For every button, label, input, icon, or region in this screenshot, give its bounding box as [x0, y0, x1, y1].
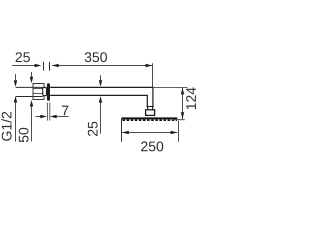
mid 25 callout lower line [100, 102, 102, 133]
50 callout upper line [31, 72, 33, 77]
G1/2 callout upper line [15, 74, 17, 80]
7 dim line left segment [35, 116, 41, 118]
7 extension line left [46, 103, 48, 121]
mid 25 arrowhead up [99, 96, 102, 103]
wall fitting inner line lower [33, 93, 43, 95]
shower head nozzle dots [123, 119, 178, 121]
connector nut top line [147, 106, 154, 108]
arrowhead 25 top right-pointing [35, 64, 42, 67]
dimension label 7 [62, 106, 68, 116]
G1/2 callout lower line [15, 102, 17, 141]
250 dimension line [122, 132, 177, 134]
dimension label 25 mid (rotated) [88, 122, 98, 136]
shower head top plate [122, 117, 178, 119]
arrowhead 350 right-pointing [146, 64, 153, 67]
7 arrowhead left-pointing [50, 115, 57, 118]
extension line from 350 right [152, 63, 154, 87]
dimension label 124 (rotated) [186, 87, 196, 109]
thread stub top line [16, 86, 43, 88]
dimension label 350 [85, 52, 107, 62]
124 arrowhead down [181, 112, 184, 119]
wall fitting box [33, 84, 44, 100]
extension tick left [43, 62, 45, 71]
shower head left side / 250 extension left [121, 119, 123, 142]
dimension label G1/2 (rotated) [1, 112, 11, 141]
7 extension line right [49, 103, 51, 121]
250 arrowhead right-pointing [171, 131, 178, 134]
connector neck left [147, 107, 149, 110]
7 arrowhead right-pointing [40, 115, 47, 118]
escutcheon [43, 87, 47, 95]
dimension label 25 (top left) [16, 52, 30, 62]
124 dimension line [182, 88, 184, 120]
extension tick right [49, 62, 51, 71]
arrowhead 350 left-pointing [52, 64, 59, 67]
thread stub bottom line [16, 96, 43, 98]
arm tube top line with elbow right side [50, 87, 153, 106]
wall fitting inner line upper [33, 88, 43, 90]
connector neck right [152, 107, 154, 110]
50 arrowhead up [30, 100, 33, 107]
G1/2 arrowhead down [14, 80, 17, 87]
124 extension bottom [172, 119, 185, 121]
connector block [146, 110, 155, 116]
124 arrowhead up [181, 88, 184, 95]
250 arrowhead left-pointing [122, 131, 129, 134]
shower head right side / 250 extension right [178, 121, 180, 142]
dimension label 250 [141, 141, 163, 151]
124 extension top [153, 86, 188, 88]
mid 25 callout upper line [100, 75, 102, 80]
7 dim line right segment [56, 116, 68, 118]
flange bar [47, 83, 50, 100]
50 arrowhead down [30, 77, 33, 84]
mid 25 arrowhead down [99, 80, 102, 87]
dimension line 350 [52, 65, 152, 67]
G1/2 arrowhead up [14, 96, 17, 103]
arm tube bottom line with elbow left side [50, 95, 147, 106]
dimension label 50 (rotated) [19, 128, 29, 142]
50 callout lower line [31, 106, 33, 141]
dimension line 25 top [12, 65, 35, 67]
